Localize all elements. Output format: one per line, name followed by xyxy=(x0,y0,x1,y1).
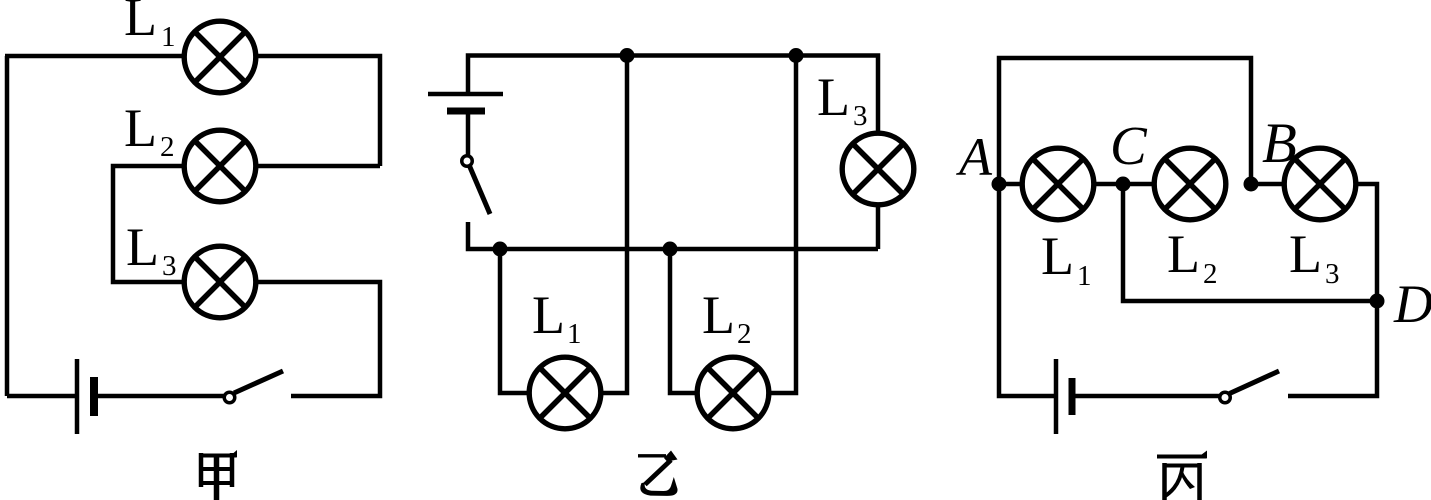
lamp L2 (bing) xyxy=(1154,148,1226,220)
svg-text:D: D xyxy=(1393,274,1431,334)
svg-text:L: L xyxy=(532,285,565,345)
wire switch contact to bottom rail xyxy=(468,222,878,249)
svg-text:A: A xyxy=(956,127,993,187)
switch S (yi) xyxy=(462,156,490,214)
svg-text:3: 3 xyxy=(853,100,868,132)
wire L1 to C xyxy=(1096,182,1123,187)
node D xyxy=(1370,294,1385,309)
wire L3 bottom to rail xyxy=(876,207,881,249)
svg-text:1: 1 xyxy=(1077,260,1092,292)
svg-text:3: 3 xyxy=(1325,258,1340,290)
wire C down and right to D xyxy=(1123,184,1377,301)
svg-text:2: 2 xyxy=(737,318,752,350)
node dot bottom mid xyxy=(663,242,678,257)
svg-text:C: C xyxy=(1110,115,1148,176)
wire L2 right xyxy=(258,164,380,169)
wire battery to switch xyxy=(98,394,224,399)
wire L1 branch left xyxy=(500,249,527,393)
wire L2 branch right up to top rail xyxy=(771,56,796,394)
svg-text:L: L xyxy=(126,217,159,277)
switch S (jia) xyxy=(224,371,283,403)
wire bottom left xyxy=(7,394,75,399)
wire top rail xyxy=(468,56,878,132)
svg-text:L: L xyxy=(124,0,157,47)
svg-text:2: 2 xyxy=(160,131,175,163)
svg-text:L: L xyxy=(817,67,850,127)
node A xyxy=(992,177,1007,192)
lamp L1 xyxy=(184,21,256,93)
wire D down to bottom rail xyxy=(1288,301,1377,396)
wire top rail xyxy=(999,58,1251,184)
label JIA character xyxy=(199,450,237,500)
node dot bottom left xyxy=(493,242,508,257)
svg-text:2: 2 xyxy=(1203,258,1218,290)
lamp L2 xyxy=(184,130,256,202)
lamp L3 (yi) xyxy=(842,133,914,205)
svg-text:L: L xyxy=(1167,224,1200,284)
svg-text:L: L xyxy=(124,98,157,158)
node C xyxy=(1116,177,1131,192)
wire C to L2 xyxy=(1123,182,1152,187)
wire battery to switch xyxy=(466,114,471,155)
wire bottom left (bing) xyxy=(999,184,1054,396)
wire left vertical xyxy=(5,56,10,396)
wire B to L3 xyxy=(1251,182,1282,187)
battery (yi) xyxy=(428,94,503,111)
lamp L1 (yi) xyxy=(529,357,601,429)
label BING character xyxy=(1157,451,1207,500)
lamp L3 xyxy=(184,246,256,318)
wire L3 right down to D xyxy=(1358,184,1377,301)
node dot top right xyxy=(789,48,804,63)
lamp L3 (bing) xyxy=(1284,148,1356,220)
wire L2 left down to L3 level xyxy=(113,166,182,282)
lamp L2 (yi) xyxy=(697,357,769,429)
svg-text:1: 1 xyxy=(161,21,176,53)
battery (jia) xyxy=(77,359,94,434)
wire battery to switch xyxy=(1075,394,1219,399)
wire top from left rail to lamp L1 xyxy=(5,54,182,59)
wire L1 branch right up to top rail xyxy=(603,56,627,394)
lamp L1 (bing) xyxy=(1022,148,1094,220)
wire L1 right to corner xyxy=(258,56,380,166)
wire L2 branch left xyxy=(670,249,695,393)
svg-text:L: L xyxy=(702,285,735,345)
switch S (bing) xyxy=(1220,371,1279,403)
node dot top left xyxy=(620,48,635,63)
label YI character xyxy=(638,451,678,496)
svg-text:1: 1 xyxy=(567,318,582,350)
svg-text:3: 3 xyxy=(162,250,177,282)
battery (bing) xyxy=(1056,359,1072,434)
wire L3 right down to bottom rail xyxy=(258,282,380,396)
node B xyxy=(1244,177,1259,192)
svg-text:L: L xyxy=(1289,224,1322,284)
wire A to L1 xyxy=(999,182,1020,187)
svg-text:L: L xyxy=(1041,226,1074,286)
